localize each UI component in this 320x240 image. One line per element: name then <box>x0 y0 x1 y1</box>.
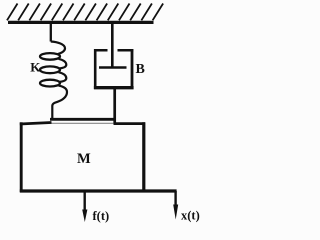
svg-text:K: K <box>30 59 41 74</box>
svg-text:M: M <box>77 151 91 167</box>
svg-text:B: B <box>136 62 145 77</box>
svg-text:f(t): f(t) <box>93 209 110 223</box>
svg-text:x(t): x(t) <box>181 209 200 223</box>
